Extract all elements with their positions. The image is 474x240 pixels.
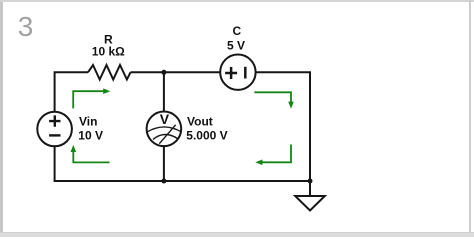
- voltmeter circle: [147, 112, 182, 147]
- svg-text:10 kΩ: 10 kΩ: [92, 45, 125, 59]
- voltage source Vin circle: [37, 112, 72, 147]
- arrowhead left-loop bottom (up): [71, 145, 77, 152]
- wire Vin bottom stub: [54, 146, 56, 181]
- arrowhead left-loop top (right): [103, 88, 110, 94]
- svg-text:5 V: 5 V: [227, 39, 245, 53]
- source C plus sign: [225, 67, 237, 79]
- voltmeter scale arc outer: [147, 127, 181, 132]
- voltmeter top stub: [163, 72, 165, 111]
- card bottom strip: [0, 233, 474, 237]
- resistor R: [88, 65, 131, 80]
- source C minus bar (rotated): [244, 67, 247, 79]
- voltmeter needle: [159, 125, 175, 144]
- current arrow right-loop bottom: [262, 145, 291, 163]
- current arrow right-loop top: [254, 92, 291, 102]
- voltage source C circle: [220, 54, 255, 89]
- card top border: [0, 0, 474, 2]
- card bottom border line: [0, 232, 474, 234]
- Vin plus sign: [49, 115, 60, 126]
- ground stub: [309, 181, 311, 196]
- wire resistor to node A: [131, 71, 164, 73]
- node B dot: [161, 179, 166, 184]
- svg-text:C: C: [232, 24, 241, 38]
- voltmeter bottom stub: [163, 146, 165, 181]
- svg-text:Vout: Vout: [187, 115, 213, 129]
- ground symbol: [295, 196, 325, 211]
- svg-text:5.000 V: 5.000 V: [186, 129, 227, 143]
- Vin minus sign: [49, 134, 60, 136]
- card right border: [469, 0, 471, 233]
- page number 3: [18, 11, 34, 43]
- wire source C to top-right corner and down: [256, 72, 310, 181]
- bottom wire node B to ground node: [164, 180, 310, 182]
- svg-text:Vin: Vin: [79, 115, 97, 129]
- bottom wire Vin to node B: [54, 180, 164, 182]
- wire node A to source C: [164, 71, 220, 73]
- wire Vin top to resistor: [55, 72, 88, 112]
- card left border: [0, 0, 3, 237]
- current arrow left-loop bottom: [73, 152, 109, 163]
- current arrow left-loop top: [73, 91, 103, 108]
- svg-text:10 V: 10 V: [78, 129, 103, 143]
- arrowhead right-loop bottom (left): [255, 160, 262, 166]
- ground node dot: [308, 179, 313, 184]
- voltmeter scale arc inner: [153, 134, 178, 139]
- svg-text:V: V: [160, 111, 170, 127]
- arrowhead right-loop top (down): [288, 102, 294, 109]
- node A dot: [161, 70, 166, 75]
